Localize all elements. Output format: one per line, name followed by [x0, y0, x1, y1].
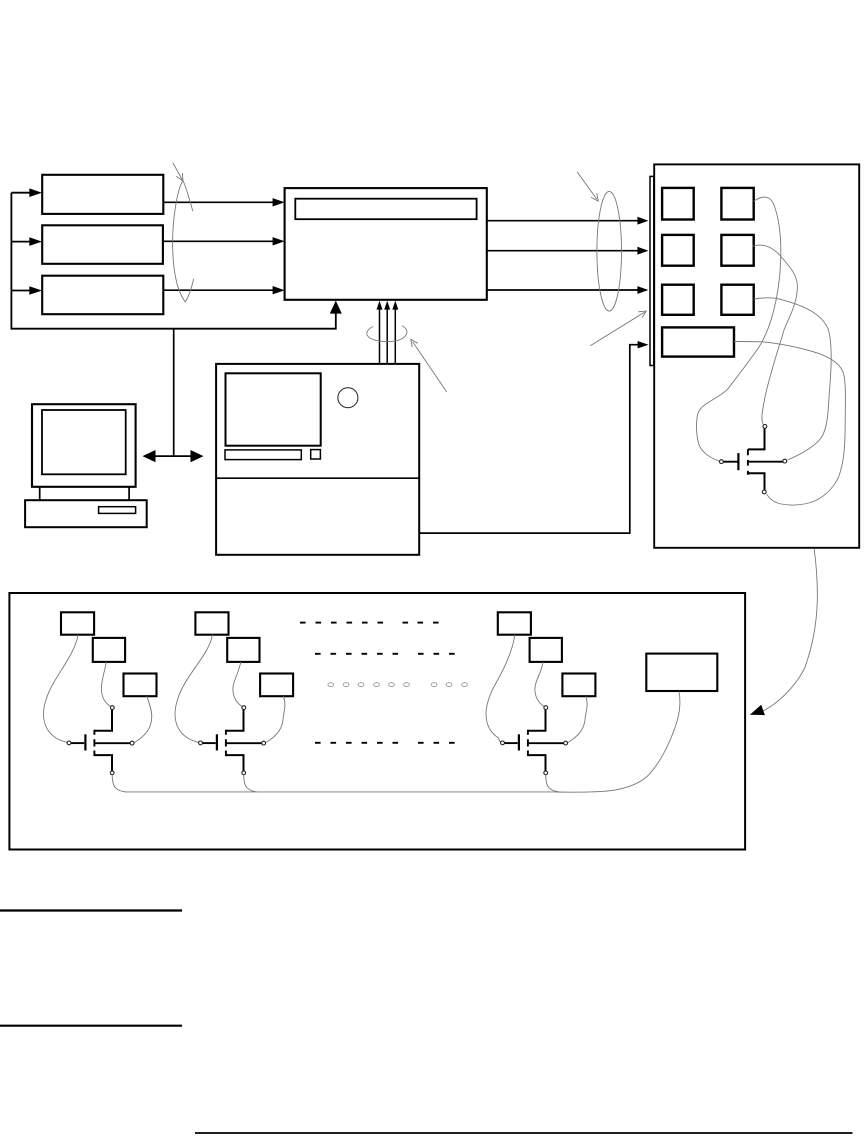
wire: common source rail [125, 791, 557, 793]
computer: floppy slot [99, 507, 136, 514]
tester: knob [338, 388, 358, 408]
wire: controller box to common rail [556, 692, 680, 793]
transistor Q1: source arm [94, 755, 112, 771]
terminal: Q3 source [544, 771, 548, 775]
wire: drop from feedback rail to link [173, 329, 175, 456]
annotation: pointer line to output bundle [577, 172, 597, 200]
arrowhead: control line 2 [384, 301, 390, 310]
wire: pad R1 to Q4 gate [697, 197, 781, 461]
terminal: Q1 gate [67, 741, 71, 745]
tester: small button [311, 450, 321, 459]
arrowhead: into main unit input 3 [273, 286, 285, 294]
block: source box 3 [42, 276, 163, 315]
wire: pad 1A to Q1 gate [43, 635, 78, 743]
annotation: cable-bundle loop around source box outputs [173, 181, 194, 302]
transistor Q4: gate lead [723, 461, 738, 463]
transistor Q3: source arm [528, 755, 546, 771]
block: probe pad 1B [93, 638, 125, 662]
wire: source box 3 output to main unit [163, 289, 273, 291]
tester: keyboard slot [225, 450, 301, 460]
annotation: pointer arrowhead at output bundle [591, 193, 598, 201]
terminal: Q3 bulk [564, 741, 568, 745]
transistor Q2: gate lead [202, 742, 215, 744]
computer: system base [25, 500, 147, 527]
wire: DUT panel to probe panel link [763, 549, 818, 711]
arrowhead: control line 3 [392, 301, 398, 310]
block: probe pad 2B [227, 638, 259, 662]
tester: screen [226, 373, 321, 445]
wire: pad 1B to Q1 drain [101, 662, 110, 707]
transistor Q2: channel (dashed) [225, 730, 227, 756]
terminal: Q4 gate [720, 460, 724, 464]
board: DUT carrier panel [654, 164, 859, 547]
annotation: cable-bundle ellipse around outputs [597, 191, 622, 311]
terminal: Q2 gate [199, 741, 203, 745]
wire: wide pad to Q4 source [734, 342, 845, 506]
transistor Q2: bulk arm [226, 742, 262, 744]
annotation: continuation dashes row 2 (pads B) [315, 653, 455, 655]
wire: tester control line 3 to main unit [394, 309, 396, 364]
arrowhead: tester line into interface bar [638, 341, 649, 348]
transistor Q1: bulk arm [94, 742, 130, 744]
arrowhead: control line 1 [377, 301, 383, 310]
arrowhead: into source box 1 [29, 188, 42, 197]
terminal: Q1 source [110, 771, 114, 775]
block: probe pad 3C [562, 674, 595, 697]
block: panel pad L3 [662, 285, 694, 315]
annotation: pointer line to bundle loop [173, 163, 183, 181]
transistor Q4: source arm [748, 473, 765, 490]
annotation: continuation dots row 3 (pads C) [328, 683, 468, 687]
wire: pad 3B to Q3 drain [535, 662, 544, 707]
terminal: Q1 drain [110, 706, 114, 710]
transistor Q1: gate bar [84, 734, 86, 750]
board: probe card panel [9, 593, 745, 850]
annotation: pointer line to interface bar [590, 312, 644, 346]
arrowhead: link into probe panel [750, 705, 765, 715]
annotation: bundle loop around control lines [367, 326, 407, 342]
block: panel pad L1 [662, 188, 694, 220]
block: probe pad 1A [61, 612, 94, 634]
computer: monitor neck left [39, 487, 41, 500]
transistor Q3: drain arm [528, 710, 546, 731]
terminal: Q3 gate [501, 741, 505, 745]
terminal: Q1 bulk [130, 741, 134, 745]
arrowhead: into main unit input 1 [273, 198, 285, 206]
annotation: pointer arrowhead at control bundle [411, 339, 418, 347]
block: probe pad 2A [195, 612, 228, 634]
block: probe pad 2C [260, 674, 293, 697]
arrowhead: link right [191, 450, 204, 462]
transistor Q4: channel (dashed) [747, 449, 749, 474]
arrowhead: link left [143, 450, 156, 462]
wire: main unit output 1 to interface bar [487, 220, 638, 222]
terminal: Q2 drain [242, 706, 246, 710]
block: main unit [285, 188, 487, 300]
terminal: Q3 drain [544, 706, 548, 710]
transistor Q4: drain arm [748, 428, 765, 449]
wire: pad R2 to Q4 drain [753, 245, 798, 424]
transistor Q1: drain arm [94, 710, 112, 731]
block: probe pad 3B [530, 638, 562, 662]
arrowhead: into source box 3 [29, 286, 42, 295]
annotation: continuation dashes row 4 (transistors) [315, 742, 455, 744]
wire: pad 3A to Q3 gate [486, 635, 515, 743]
computer: monitor frame [32, 404, 136, 487]
wire: branch to source box 3 [11, 290, 30, 292]
arrowhead: output 1 into interface bar [637, 217, 648, 225]
wire: Q3 source to common rail [546, 775, 560, 792]
wire: pad 2B to Q2 drain [233, 662, 242, 707]
connector: interface bar [650, 176, 654, 365]
rule: page footer line [195, 1132, 853, 1134]
block: panel pad R3 [721, 285, 753, 315]
arrowhead: output 2 into interface bar [637, 247, 648, 255]
wire: bidirectional link computer-tester [155, 455, 192, 457]
transistor Q1: channel (dashed) [93, 730, 95, 756]
wire: tester output to interface bar [419, 345, 638, 533]
block: probe pad 1C [124, 674, 157, 697]
wire: Q1 source to common rail [112, 775, 126, 792]
transistor Q1: gate lead [71, 742, 84, 744]
transistor Q2: drain arm [226, 710, 244, 731]
transistor Q3: gate lead [504, 742, 517, 744]
wire: tester control line 2 to main unit [386, 309, 388, 364]
terminal: Q2 source [242, 771, 246, 775]
block: panel pad L2 [662, 235, 694, 266]
wire: pad 2C to Q2 bulk [266, 696, 285, 742]
block: panel pad R1 [721, 188, 753, 220]
block: probe pad 3A [498, 612, 531, 634]
transistor Q3: bulk arm [528, 742, 564, 744]
wire: tester control line 1 to main unit [379, 309, 381, 364]
wire: source box 2 output to main unit [163, 240, 273, 242]
rule: footnote separator 2 [0, 1025, 182, 1027]
wire: pad 3C to Q3 bulk [568, 696, 587, 742]
block: probe panel controller box [646, 654, 717, 691]
transistor Q2: source arm [226, 755, 244, 771]
wire: source box 1 output to main unit [163, 201, 273, 203]
annotation: pointer arrowhead at interface bar [638, 311, 646, 318]
annotation: pointer arrowhead [176, 173, 183, 181]
terminal: Q4 drain [763, 425, 767, 429]
transistor Q4: gate bar [737, 453, 739, 470]
wire: branch to source box 1 [11, 192, 30, 194]
tester: cabinet [216, 364, 419, 555]
tester: cabinet divider [216, 477, 419, 479]
wire: pad 2A to Q2 gate [175, 635, 212, 743]
wire: pad 1C to Q1 bulk [134, 696, 152, 742]
block: source box 2 [42, 225, 163, 263]
wire: pad R3 to Q4 bulk [754, 298, 831, 460]
terminal: Q4 bulk [783, 459, 787, 463]
wire: left input rail with feedback run to main unit [11, 193, 335, 329]
block: main unit display slot [295, 199, 476, 220]
wire: Q2 source to common rail [244, 775, 258, 792]
wire: main unit output 2 to interface bar [487, 250, 638, 252]
rule: footnote separator 1 [0, 909, 182, 911]
arrowhead: into main unit input 2 [273, 237, 285, 245]
wire: branch to source box 2 [11, 241, 30, 243]
arrowhead: feedback into main unit bottom [330, 301, 342, 314]
annotation: continuation dashes row 1 (pads A) [300, 622, 439, 624]
annotation: pointer line to control bundle [413, 342, 447, 392]
block: source box 1 [42, 175, 163, 214]
computer: monitor neck right [128, 487, 130, 500]
terminal: Q2 bulk [262, 741, 266, 745]
transistor Q4: bulk arm [748, 461, 783, 463]
terminal: Q4 source [762, 490, 766, 494]
arrowhead: output 3 into interface bar [637, 286, 648, 294]
arrowhead: into source box 2 [29, 237, 42, 246]
wire: main unit output 3 to interface bar [487, 289, 638, 291]
block: panel wide pad [662, 327, 734, 356]
computer: monitor screen [42, 410, 126, 474]
transistor Q3: gate bar [518, 734, 520, 750]
transistor Q3: channel (dashed) [527, 730, 529, 756]
transistor Q2: gate bar [216, 734, 218, 750]
block: panel pad R2 [721, 235, 753, 266]
